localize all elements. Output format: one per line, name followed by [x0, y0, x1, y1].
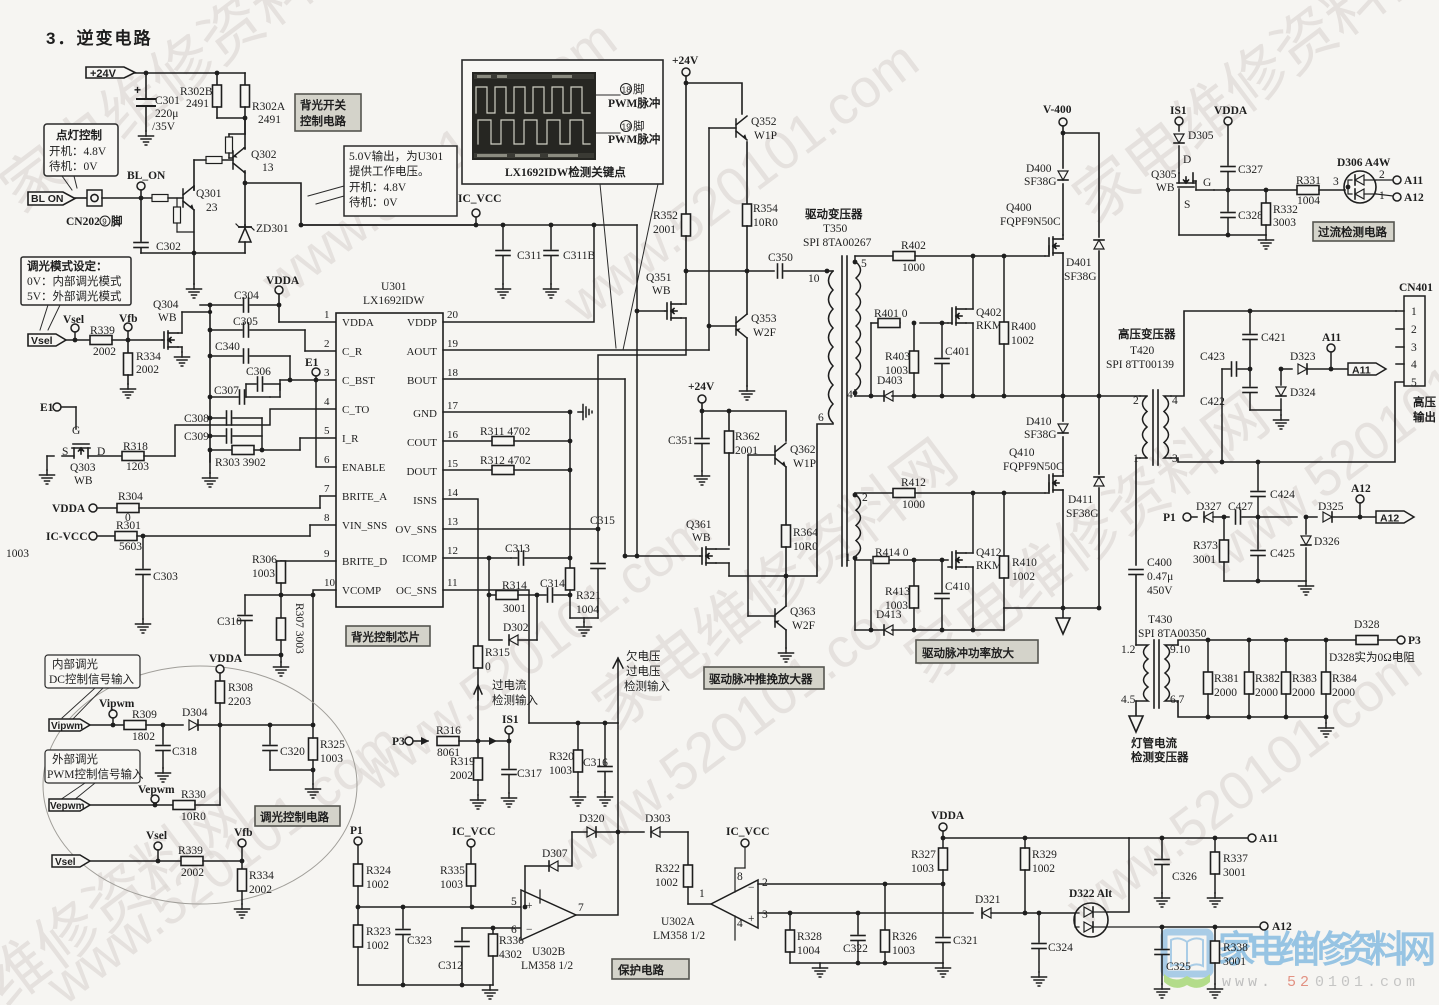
svg-text:C327: C327	[1238, 164, 1263, 176]
svg-text:Q353: Q353	[751, 313, 777, 325]
capacitor C315	[590, 515, 615, 618]
svg-text:家电维修资料网: 家电维修资料网	[1218, 929, 1436, 971]
svg-text:D328: D328	[1354, 619, 1380, 631]
svg-text:高压变压器: 高压变压器	[1118, 327, 1176, 341]
op-amp U302A	[653, 868, 768, 942]
terminal A11	[1376, 175, 1423, 187]
diode D321	[975, 894, 1075, 918]
pin 9 BRITE_D	[324, 548, 387, 568]
svg-text:R312 4702: R312 4702	[480, 455, 531, 467]
capacitor C400	[1129, 557, 1173, 645]
svg-text:LM358 1/2: LM358 1/2	[521, 960, 573, 972]
wire Q361 gate line	[623, 554, 700, 559]
svg-text:13: 13	[447, 516, 459, 528]
svg-text:待机：0V: 待机：0V	[349, 195, 398, 209]
svg-text:+24V: +24V	[90, 68, 117, 80]
resistor R307	[277, 595, 306, 662]
resistor R319	[450, 741, 486, 809]
svg-text:13: 13	[262, 162, 274, 174]
capacitor C321	[936, 884, 978, 963]
wire Q352 collector feed	[684, 81, 742, 114]
diode D403 on rail	[877, 375, 903, 401]
svg-text:4: 4	[1411, 359, 1417, 371]
svg-text:IC_VCC: IC_VCC	[726, 826, 769, 838]
svg-text:1004: 1004	[576, 604, 599, 616]
wire Q352 base	[709, 127, 736, 129]
pin 3 C_BST	[324, 367, 375, 387]
svg-text:1000: 1000	[902, 262, 925, 274]
svg-text:R319: R319	[450, 756, 475, 768]
capacitor C424	[1251, 462, 1295, 517]
svg-text:A12: A12	[1404, 192, 1424, 204]
svg-text:SPI 8TT00139: SPI 8TT00139	[1106, 359, 1174, 371]
svg-text:W2F: W2F	[792, 620, 815, 632]
svg-text:输出: 输出	[1413, 410, 1436, 424]
capacitor C324	[1032, 913, 1074, 986]
capacitor C310	[217, 595, 252, 655]
label box 保护电路	[612, 959, 689, 979]
terminal Vfb lower	[234, 827, 253, 869]
note box 5.0V输出	[308, 146, 457, 216]
svg-text:R338: R338	[1223, 942, 1248, 954]
wire ICOMP lower row	[489, 558, 496, 595]
terminal A11	[1322, 332, 1341, 371]
svg-text:VDDA: VDDA	[209, 653, 243, 665]
svg-text:R303 3902: R303 3902	[215, 457, 266, 469]
resistor R323	[354, 905, 392, 985]
terminal A12	[1260, 921, 1292, 933]
note box 内部调光	[45, 655, 140, 722]
node	[208, 328, 213, 333]
capacitor C303	[136, 534, 178, 619]
resistor R306	[252, 554, 336, 595]
terminal IC-VCC pin8	[46, 531, 115, 543]
svg-text:PWM脉冲: PWM脉冲	[608, 96, 660, 110]
node	[1256, 515, 1261, 520]
logo book icon	[1164, 932, 1210, 988]
wire R302B bottom to R302A line	[217, 117, 245, 119]
svg-text:0V：内部调光模式: 0V：内部调光模式	[27, 274, 122, 288]
svg-text:A12: A12	[1351, 483, 1371, 495]
svg-text:+: +	[134, 83, 141, 97]
diode D323	[1281, 351, 1348, 374]
wire Q363 collector/emitter	[779, 576, 794, 662]
node	[208, 395, 213, 400]
resistor R339	[90, 325, 116, 358]
capacitor C308	[184, 411, 262, 425]
svg-text:Vsel: Vsel	[63, 314, 84, 326]
svg-text:ENABLE: ENABLE	[342, 462, 386, 474]
svg-text:W1P: W1P	[793, 458, 816, 470]
capacitor C305	[210, 316, 336, 351]
svg-text:C315: C315	[590, 515, 615, 527]
svg-text:/35V: /35V	[152, 121, 176, 133]
capacitor C313	[505, 543, 570, 565]
svg-text:脚: 脚	[111, 214, 123, 228]
mosfet Q410	[1003, 447, 1064, 608]
svg-text:C_BST: C_BST	[342, 375, 375, 387]
svg-text:R334: R334	[136, 351, 161, 363]
svg-text:IC_VCC: IC_VCC	[452, 826, 495, 838]
svg-text:检测输入: 检测输入	[492, 693, 538, 707]
svg-text:PWM脉冲: PWM脉冲	[608, 132, 660, 146]
pin 5 I_R	[324, 425, 359, 445]
svg-text:9: 9	[324, 548, 330, 560]
svg-text:20: 20	[447, 309, 459, 321]
wire Q363 base	[748, 615, 775, 617]
label box 过流检测电路	[1313, 222, 1394, 241]
ground under Q304	[175, 352, 190, 366]
svg-text:Vepwm: Vepwm	[138, 784, 175, 796]
svg-text:−: −	[526, 924, 533, 936]
svg-text:16: 16	[447, 429, 459, 441]
resistor R327	[911, 848, 948, 884]
svg-text:R402: R402	[901, 240, 926, 252]
resistor R322	[655, 832, 693, 904]
svg-text:9.10: 9.10	[1170, 644, 1190, 656]
svg-text:6: 6	[324, 454, 330, 466]
resistor R318	[122, 441, 175, 473]
svg-text:RKM: RKM	[976, 320, 1002, 332]
terminal E1	[305, 357, 320, 382]
svg-text:23: 23	[206, 202, 218, 214]
resistor R308	[209, 653, 253, 727]
T430 primary return arrow	[1129, 701, 1189, 764]
svg-text:3: 3	[1411, 342, 1417, 354]
svg-text:7: 7	[578, 902, 584, 914]
wire	[66, 339, 92, 341]
svg-text:ISNS: ISNS	[413, 495, 437, 507]
wire Q362 base line	[748, 455, 775, 616]
svg-text:C302: C302	[156, 241, 181, 253]
svg-text:Q305: Q305	[1151, 169, 1177, 181]
terminal P1	[350, 825, 363, 864]
wire GND/R311/R312 vertical	[569, 412, 571, 558]
svg-text:R331: R331	[1296, 175, 1321, 187]
svg-text:Q402: Q402	[976, 307, 1002, 319]
flag BL ON	[28, 192, 75, 205]
capacitor C322	[843, 913, 868, 963]
resistor R328	[786, 913, 823, 963]
svg-text:1003: 1003	[252, 568, 275, 580]
capacitor C423	[1200, 351, 1250, 464]
capacitor C410	[935, 560, 970, 630]
svg-text:Vipwm: Vipwm	[99, 698, 135, 710]
transistor Q301	[183, 186, 222, 214]
svg-text:PWM控制信号输入: PWM控制信号输入	[47, 767, 144, 781]
resistor R339 lower	[178, 845, 242, 879]
svg-text:E1: E1	[305, 357, 319, 369]
svg-text:18: 18	[622, 85, 632, 95]
diode D327	[1196, 501, 1229, 522]
svg-text:SF38G: SF38G	[1024, 176, 1057, 188]
svg-text:R316: R316	[436, 725, 461, 737]
svg-text:ICOMP: ICOMP	[402, 553, 437, 565]
wire +24V rail	[135, 72, 245, 74]
transistor Q363 (PNP)	[775, 606, 816, 632]
svg-text:8: 8	[737, 871, 743, 883]
pin 18 BOUT	[407, 367, 625, 387]
note box 点灯控制	[44, 124, 118, 190]
wire vertical x637	[636, 225, 638, 556]
svg-text:R354: R354	[753, 203, 778, 215]
wire VDDA to pin1	[279, 321, 336, 323]
svg-text:C304: C304	[234, 290, 259, 302]
svg-text:2000: 2000	[1255, 687, 1278, 699]
oscilloscope note box	[462, 60, 663, 184]
resistor R334 lower	[235, 869, 275, 918]
svg-text:5: 5	[511, 896, 517, 908]
svg-text:V-400: V-400	[1043, 104, 1072, 116]
svg-text:CN401: CN401	[1399, 282, 1433, 294]
capacitor C350	[768, 252, 827, 278]
dual diode D322	[1069, 888, 1160, 937]
pin 6 ENABLE	[316, 380, 386, 474]
svg-text:11: 11	[447, 577, 458, 589]
mosfet Q304	[153, 299, 212, 352]
transistor Q302	[233, 118, 277, 174]
svg-text:D327: D327	[1196, 501, 1222, 513]
svg-text:D303: D303	[645, 813, 671, 825]
svg-text:C305: C305	[233, 316, 258, 328]
svg-text:1: 1	[699, 888, 705, 900]
resistor R400	[1000, 256, 1037, 396]
capacitor C307	[210, 385, 270, 404]
svg-text:R311 4702: R311 4702	[480, 426, 531, 438]
svg-text:D305: D305	[1188, 130, 1214, 142]
svg-text:R339: R339	[178, 845, 203, 857]
svg-text:8: 8	[324, 512, 330, 524]
ellipse dimming region	[43, 666, 357, 904]
svg-text:BRITE_A: BRITE_A	[342, 491, 387, 503]
svg-text:R304: R304	[118, 491, 143, 503]
terminal VDDA	[931, 810, 965, 848]
resistor R302A	[241, 73, 286, 134]
wire pin6 row	[462, 926, 521, 940]
svg-text:1: 1	[1379, 190, 1385, 202]
resistor R414	[871, 557, 889, 631]
svg-text:高压: 高压	[1413, 395, 1436, 409]
svg-text:3001: 3001	[1223, 956, 1246, 968]
svg-text:R362: R362	[735, 431, 760, 443]
node	[299, 223, 304, 228]
svg-text:R315: R315	[485, 647, 510, 659]
svg-text:BRITE_D: BRITE_D	[342, 556, 387, 568]
svg-text:2: 2	[1379, 169, 1385, 181]
svg-text:D411: D411	[1068, 494, 1093, 506]
wire Q353 emitter up / collector down to ground	[740, 271, 755, 400]
svg-text:过流检测电路: 过流检测电路	[1318, 225, 1387, 239]
wire Q412 gate row	[855, 547, 948, 562]
capacitor C425	[1251, 517, 1295, 581]
svg-text:R325: R325	[320, 739, 345, 751]
mosfet Q305	[1151, 169, 1214, 235]
capacitor C311B	[544, 223, 596, 298]
svg-text:G: G	[1203, 177, 1211, 189]
ground cap bus	[203, 450, 218, 487]
svg-text:6: 6	[511, 924, 517, 936]
svg-text:R339: R339	[90, 325, 115, 337]
svg-text:T350: T350	[823, 223, 848, 235]
pin 17 GND	[413, 400, 592, 420]
svg-text:VDDA: VDDA	[52, 503, 86, 515]
pin 16 COUT + resistor R311	[407, 426, 572, 449]
svg-text:18: 18	[447, 367, 459, 379]
wire T420 pin4 to CN401 pin1	[1171, 311, 1396, 396]
svg-text:C422: C422	[1200, 396, 1225, 408]
terminal Vfb	[119, 313, 138, 340]
svg-text:R327: R327	[911, 849, 936, 861]
svg-text:1203: 1203	[126, 461, 149, 473]
capacitor C401	[935, 323, 970, 396]
svg-text:10R0: 10R0	[753, 217, 778, 229]
pin 2 C_R	[305, 338, 363, 358]
terminal P3	[392, 736, 429, 748]
svg-text:1.2: 1.2	[1121, 644, 1136, 656]
svg-text:0: 0	[485, 661, 491, 673]
svg-text:Q351: Q351	[646, 272, 672, 284]
pin 12 ICOMP	[402, 545, 511, 565]
svg-text:Vsel: Vsel	[146, 830, 167, 842]
wire Q302 collector down	[244, 171, 246, 225]
svg-text:Vipwm: Vipwm	[51, 721, 83, 732]
terminal IC_VCC right	[726, 826, 769, 868]
terminal IC_VCC	[458, 193, 501, 227]
svg-text:2: 2	[1133, 395, 1139, 407]
svg-text:A12: A12	[1272, 921, 1292, 933]
diode D305	[1174, 130, 1214, 173]
svg-text:R322: R322	[655, 863, 680, 875]
svg-text:10R0: 10R0	[181, 811, 206, 823]
op-amp U302B	[511, 890, 584, 972]
capacitor C314	[540, 578, 572, 602]
terminal Vipwm	[99, 698, 135, 727]
resistor R362	[725, 411, 761, 545]
node	[243, 181, 248, 186]
svg-text:BOUT: BOUT	[407, 375, 437, 387]
mosfet Q412	[948, 493, 1002, 630]
resistor R383	[1282, 640, 1318, 717]
svg-text:10: 10	[808, 273, 820, 285]
svg-text:U301: U301	[381, 281, 407, 293]
wire R321/C315 gnd rail	[570, 618, 598, 636]
wire cap bus	[209, 305, 211, 462]
svg-text:C314: C314	[540, 578, 565, 590]
svg-text:C425: C425	[1270, 548, 1295, 560]
resistor R337	[1208, 838, 1249, 907]
svg-text:1003: 1003	[320, 753, 343, 765]
pin 14 ISNS	[413, 487, 478, 646]
diode D303	[618, 813, 688, 837]
svg-text:2491: 2491	[186, 98, 209, 110]
svg-text:D320: D320	[579, 813, 605, 825]
svg-text:D322 Alt: D322 Alt	[1069, 888, 1112, 900]
svg-text:R337: R337	[1223, 853, 1248, 865]
svg-text:2491: 2491	[258, 114, 281, 126]
resistor Q302 base pull-up	[226, 134, 246, 158]
wire pin5 to R402	[854, 256, 856, 262]
wire T430 sec top rail	[1178, 638, 1328, 645]
capacitor C312	[438, 942, 469, 986]
diode D302	[487, 593, 540, 645]
transistor Q353 (PNP)	[736, 313, 777, 339]
svg-text:SF38G: SF38G	[1024, 429, 1057, 441]
svg-text:7: 7	[324, 483, 330, 495]
diode D307 feedback	[523, 832, 618, 915]
svg-text:C410: C410	[945, 581, 970, 593]
svg-text:I_R: I_R	[342, 433, 359, 445]
svg-text:R329: R329	[1032, 849, 1057, 861]
svg-text:2000: 2000	[1292, 687, 1315, 699]
node junction row	[684, 269, 774, 274]
svg-text:2002: 2002	[450, 770, 473, 782]
svg-text:52: 52	[1287, 974, 1313, 991]
svg-text:WB: WB	[74, 475, 93, 487]
svg-text:4: 4	[737, 918, 743, 930]
resistor R381	[1204, 640, 1240, 717]
svg-text:1003: 1003	[6, 548, 29, 560]
svg-text:5V：外部调光模式: 5V：外部调光模式	[27, 289, 122, 303]
svg-text:Q410: Q410	[1009, 447, 1035, 459]
node	[243, 116, 248, 121]
svg-text:R352: R352	[653, 210, 678, 222]
resistor R304	[117, 491, 336, 524]
svg-text:2000: 2000	[1332, 687, 1355, 699]
svg-text:VDDA: VDDA	[266, 275, 300, 287]
svg-text:P3: P3	[392, 736, 405, 748]
note box 调光模式设定	[21, 257, 131, 330]
capacitor C326	[1155, 838, 1198, 907]
svg-text:15: 15	[447, 458, 459, 470]
terminal VDDA	[1214, 105, 1248, 165]
node	[700, 409, 705, 414]
wire Q301 collector to Q302 base	[193, 160, 195, 190]
node	[208, 303, 213, 308]
svg-text:Vepwm: Vepwm	[50, 801, 85, 812]
pin 8 VIN_SNS	[324, 512, 387, 532]
diode D324	[1274, 367, 1316, 429]
svg-text:VDDA: VDDA	[1214, 105, 1248, 117]
wire C306 row to pin3	[280, 380, 336, 390]
wire A12 row	[1160, 925, 1260, 930]
flag Vsel lower	[52, 855, 181, 868]
svg-text:R302A: R302A	[252, 101, 286, 113]
ground	[1319, 717, 1334, 737]
svg-text:R334: R334	[249, 870, 274, 882]
resistor R321	[566, 558, 602, 618]
wire OC_SNS to sense row	[529, 721, 618, 726]
svg-text:提供工作电压。: 提供工作电压。	[349, 164, 430, 178]
svg-text:1002: 1002	[1032, 863, 1055, 875]
wire bottom rail of A12 filter	[1224, 579, 1314, 595]
node	[971, 254, 976, 259]
pad CN202	[66, 190, 123, 228]
svg-text:C312: C312	[438, 960, 463, 972]
wire Q353 base tap	[707, 324, 736, 329]
svg-text:1004: 1004	[797, 945, 820, 957]
connector CN401	[1396, 282, 1436, 424]
svg-text:T420: T420	[1130, 345, 1155, 357]
svg-text:5603: 5603	[119, 541, 142, 553]
svg-text:A12: A12	[1380, 513, 1399, 525]
pin 10 VCOMP	[324, 577, 381, 597]
svg-text:R302B: R302B	[180, 86, 213, 98]
svg-text:R326: R326	[892, 931, 917, 943]
svg-text:D307: D307	[542, 848, 568, 860]
resistor R303	[210, 438, 336, 469]
node	[971, 491, 976, 496]
capacitor C301 (electrolytic)	[134, 73, 180, 133]
